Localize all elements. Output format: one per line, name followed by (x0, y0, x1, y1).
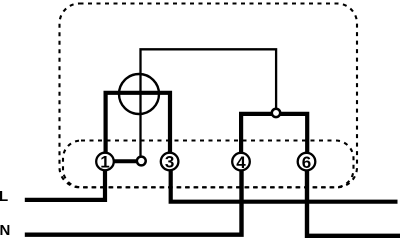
node A (voltage tap circle) (137, 157, 146, 166)
wire terminal 6 to load N (307, 170, 400, 236)
terminal 4 (232, 153, 250, 172)
wire supply N to terminal 4 (25, 170, 242, 235)
wire terminal 1 to node A (113, 159, 137, 163)
svg-text:L: L (0, 188, 8, 205)
terminal 6 (298, 153, 316, 172)
terminal block (dashed outline) (63, 141, 354, 188)
svg-text:N: N (0, 222, 10, 239)
terminal 3 (161, 153, 179, 172)
wire supply L to terminal 1 (25, 170, 105, 200)
wire voltage-coil link (thin: up from node A over to node B) (141, 49, 277, 157)
current coil (circle) (119, 74, 159, 114)
wire terminal 3 to load L (171, 170, 398, 202)
svg-text:1: 1 (100, 153, 109, 172)
terminal 1 (96, 153, 114, 172)
svg-text:3: 3 (165, 153, 174, 172)
svg-text:4: 4 (236, 153, 246, 172)
node B (voltage tap circle) (272, 109, 280, 117)
wire current coil conductor terminal1-terminal3 (thick U) (106, 93, 170, 152)
meter enclosure (dashed outline) (60, 4, 358, 188)
svg-text:6: 6 (302, 153, 311, 172)
wire voltage bar terminal4-terminal6 (thick U) (241, 114, 307, 152)
